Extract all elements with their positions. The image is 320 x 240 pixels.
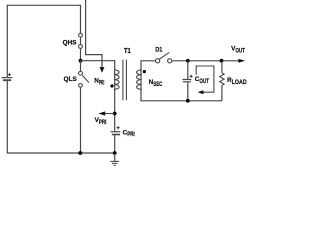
svg-text:QHS: QHS xyxy=(63,39,78,46)
transformer T1 primary winding NPRI xyxy=(114,70,119,90)
wire QHS to node A xyxy=(80,48,82,60)
svg-text:NPRI: NPRI xyxy=(94,78,104,87)
svg-text:NSEC: NSEC xyxy=(149,79,163,88)
wire VIN- to ground rail xyxy=(7,81,114,153)
svg-text:CPRI: CPRI xyxy=(123,129,135,138)
circulating current loop arrow xyxy=(196,66,214,94)
svg-text:T1: T1 xyxy=(124,48,131,55)
junction dot COUT top xyxy=(186,59,190,63)
wire V+ top rail from source to QHS xyxy=(7,5,80,77)
svg-text:VOUT: VOUT xyxy=(231,46,245,55)
svg-text:RLOAD: RLOAD xyxy=(227,77,247,86)
NPRI current direction arrow xyxy=(86,0,105,73)
diode D1 (ideal switch, open) xyxy=(156,52,172,63)
svg-text:COUT: COUT xyxy=(195,76,209,85)
svg-text:VPRI: VPRI xyxy=(95,117,107,126)
capacitor COUT xyxy=(182,61,192,101)
primary phase dot xyxy=(110,84,113,87)
ground symbol xyxy=(110,153,119,165)
VPRI arrow xyxy=(98,111,114,115)
junction dot CPRI at ground rail xyxy=(113,151,117,155)
secondary phase dot xyxy=(143,70,146,73)
junction dot COUT bottom xyxy=(186,99,190,103)
node A junction dot xyxy=(79,59,83,63)
junction dot RLOAD top xyxy=(220,59,224,63)
resistor RLOAD xyxy=(220,61,224,101)
svg-text:D1: D1 xyxy=(155,47,163,54)
junction dot QLS at ground rail xyxy=(78,151,82,155)
secondary winding arcs xyxy=(137,70,142,90)
VOUT arrowhead xyxy=(238,59,245,63)
input source VIN (polarized capacitor) xyxy=(2,73,13,80)
node VPRI junction dot xyxy=(113,112,117,116)
wire D1 to VOUT xyxy=(172,60,239,62)
capacitor CPRI xyxy=(111,126,121,153)
wire node A to primary top and down to CPRI xyxy=(81,61,115,132)
transformer T1 core xyxy=(123,60,127,101)
switch QHS (closed) xyxy=(79,33,83,48)
switch QLS (open) xyxy=(79,61,89,153)
transformer T1 secondary winding NSEC wire xyxy=(141,61,222,101)
svg-text:QLS: QLS xyxy=(64,76,78,83)
